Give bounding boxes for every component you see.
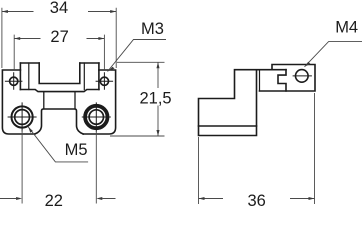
dimension text 36 xyxy=(248,192,266,210)
hole M3 left center lines xyxy=(5,72,23,90)
label text M4 xyxy=(335,19,358,37)
leader M4 with arrow xyxy=(305,42,363,67)
dimension 34 line with arrows xyxy=(2,10,116,13)
svg-text:36: 36 xyxy=(248,192,266,209)
hole M3 right center lines xyxy=(96,72,114,90)
svg-text:M4: M4 xyxy=(335,19,358,37)
svg-text:M5: M5 xyxy=(65,141,88,159)
svg-text:M3: M3 xyxy=(141,20,164,38)
front view inner edge line left column xyxy=(28,63,30,90)
front view clamp flange top edge xyxy=(20,62,99,64)
front view base body outline xyxy=(2,70,115,134)
front view flange bottom edge with chamfer trapezoid xyxy=(20,90,99,92)
front view inner edge line right column xyxy=(83,63,85,90)
dimension text 27 xyxy=(50,28,68,46)
front view bottom notch arch with corner fillets xyxy=(35,109,83,134)
side view foot mid line xyxy=(199,125,257,127)
svg-text:21,5: 21,5 xyxy=(140,90,172,108)
side view inner edge near tower xyxy=(259,70,261,91)
dimension text 22 xyxy=(45,192,63,210)
svg-text:34: 34 xyxy=(50,0,68,17)
hole M4 center line xyxy=(293,75,312,77)
dimension 21,5 line with arrows xyxy=(156,62,159,136)
front view clamp flange side edges xyxy=(20,63,99,90)
dimension 34 extension lines xyxy=(2,8,116,68)
dimension text 34 xyxy=(50,0,68,17)
label text M5 xyxy=(65,141,88,159)
hole M5 right circles xyxy=(85,106,107,128)
dimension 36 extension lines xyxy=(199,93,315,204)
dimension 22 line with outside arrows xyxy=(0,197,116,200)
dimension text 21,5 xyxy=(140,90,172,108)
leader M5 with arrow xyxy=(28,127,88,162)
dimension 21,5 extension lines xyxy=(110,62,165,136)
hole M3 left circle xyxy=(10,77,18,85)
hole M5 left circles xyxy=(12,106,33,127)
side view T-slot profile xyxy=(278,70,286,91)
dimension 27 line with arrows xyxy=(14,37,104,40)
dimension 36 line with arrows xyxy=(199,197,315,200)
svg-text:22: 22 xyxy=(45,192,63,209)
side view stepped body outline xyxy=(199,70,287,136)
dimension 22 extension lines xyxy=(22,130,96,204)
label text M3 xyxy=(141,20,164,38)
dimension 27 extension lines xyxy=(14,35,104,70)
front view U channel walls and bottom xyxy=(39,63,80,84)
hole M5 right center lines xyxy=(82,102,111,131)
leader M3 with arrow xyxy=(108,40,167,72)
side view head block outline xyxy=(260,65,316,92)
hole M4 circle xyxy=(296,70,309,83)
svg-text:27: 27 xyxy=(50,28,68,46)
front view web edges between flange and bottom notch xyxy=(44,92,75,109)
hole M5 left center lines xyxy=(8,102,37,131)
hole M3 right circle xyxy=(100,77,108,85)
